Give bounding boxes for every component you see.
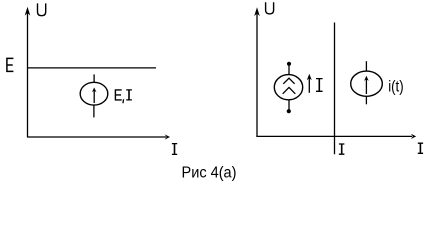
vertical I line (334, 23, 336, 155)
current source J1 top dot (287, 62, 291, 66)
right graph I axis (256, 135, 412, 137)
label E,I (115, 89, 132, 103)
source V1 inner arrow (93, 90, 95, 103)
left graph I axis arrowhead (165, 134, 170, 139)
E level line (28, 67, 156, 69)
right graph U axis arrowhead (254, 7, 260, 16)
svg-text:Рис 4(а): Рис 4(а) (182, 165, 237, 182)
label I (below axis at vertical line) (339, 144, 345, 154)
label I (beside arrow) (316, 79, 323, 92)
right graph I axis arrowhead (411, 134, 416, 139)
current source J2 top lead (365, 61, 367, 71)
label I (left x axis) (172, 144, 177, 155)
current source J1 top lead (288, 64, 290, 75)
label U (right) (266, 2, 274, 14)
source V1 ellipse (80, 82, 108, 105)
arrow I beside J1 (308, 78, 310, 93)
current source J2 ellipse (351, 71, 383, 96)
current source J1 bottom lead (288, 100, 290, 110)
current source J1 chevron lower (283, 87, 296, 93)
right graph U axis (256, 11, 258, 137)
label I (right x axis) (418, 143, 423, 153)
current source J1 bottom dot (287, 109, 291, 113)
left graph U axis (27, 10, 29, 137)
source V1 top lead (93, 74, 95, 82)
source V1 bottom lead (93, 105, 95, 117)
label U (left) (38, 3, 46, 15)
svg-text:i(t): i(t) (388, 78, 403, 95)
current source J1 ellipse (274, 75, 302, 100)
current source J1 chevron upper (283, 78, 294, 84)
left graph I axis (27, 136, 166, 138)
left graph U axis arrowhead (25, 7, 31, 16)
label E (left axis) (6, 58, 13, 72)
current source J2 bottom lead (365, 96, 367, 104)
current source J2 inner arrow (365, 79, 367, 95)
